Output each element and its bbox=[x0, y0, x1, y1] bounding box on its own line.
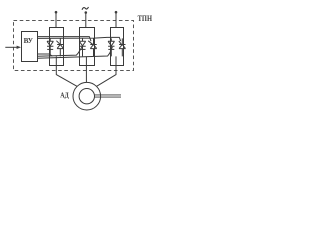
thyristor VS2 left (down) bbox=[79, 38, 85, 56]
thyristor module box VS1 bbox=[50, 28, 64, 66]
gate bus lower line 3 bbox=[37, 47, 112, 58]
motor rotor circle bbox=[79, 89, 94, 104]
wire phase C feed bbox=[115, 12, 117, 28]
gate lead VS1 right thyristor bbox=[56, 41, 60, 45]
motor shaft bbox=[95, 95, 122, 97]
gate bus lower line 2 bbox=[37, 47, 82, 57]
AC source tilde bbox=[82, 7, 89, 10]
gate lead VS2 right thyristor bbox=[88, 41, 92, 45]
node phase B top dot bbox=[85, 11, 88, 14]
control unit ВУ box bbox=[22, 32, 38, 62]
input arrow to ВУ bbox=[5, 46, 17, 48]
motor АД stator circle bbox=[73, 82, 101, 110]
wire VS2 output to motor bbox=[85, 56, 87, 82]
gate lead VS3 right thyristor bbox=[119, 41, 122, 45]
gate bus upper line 2 bbox=[37, 37, 120, 41]
svg-text:ТПН: ТПН bbox=[138, 14, 153, 23]
node phase A top dot bbox=[55, 11, 58, 14]
thyristor VS3 left (down) bbox=[108, 38, 114, 56]
node phase C top dot bbox=[115, 11, 118, 14]
thyristor VS1 left (down) bbox=[47, 38, 53, 56]
wire phase B feed bbox=[85, 13, 87, 28]
dashed enclosure ТПН bbox=[14, 21, 134, 71]
svg-text:ВУ: ВУ bbox=[24, 36, 34, 45]
wire VS3 output to motor bbox=[97, 56, 116, 86]
thyristor module box VS3 bbox=[111, 28, 124, 66]
thyristor VS3 right (up) bbox=[119, 38, 125, 56]
thyristor VS2 right (up) bbox=[90, 38, 96, 56]
gate bus lower line 1 bbox=[37, 54, 52, 56]
gate bus upper line 1 bbox=[37, 37, 91, 42]
wire phase A feed bbox=[55, 12, 57, 28]
svg-text:АД: АД bbox=[60, 91, 69, 100]
thyristor module box VS2 bbox=[80, 28, 95, 66]
thyristor VS1 right (up) bbox=[57, 38, 63, 56]
wire VS1 output to motor bbox=[56, 56, 77, 86]
